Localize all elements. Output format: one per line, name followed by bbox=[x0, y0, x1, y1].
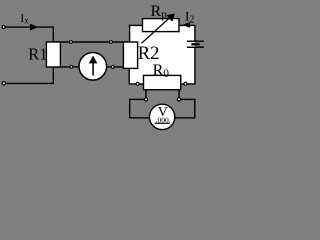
wire: R2 bottom lead down bbox=[128, 68, 130, 84]
wire: Ix horizontal wire bbox=[5, 26, 54, 28]
current source circle bbox=[79, 53, 107, 81]
wire: Rp branch right segment to battery bbox=[179, 24, 196, 26]
wire: voltmeter left horizontal bbox=[129, 117, 151, 119]
wire: Rp branch left segment bbox=[129, 24, 144, 26]
junction circle left bbox=[144, 98, 147, 101]
battery plate long (bottom) bbox=[187, 46, 204, 48]
wire: top rail R1 to R2 bbox=[53, 41, 131, 43]
junction circle right bbox=[177, 98, 180, 101]
wire: lower rail left segment bbox=[129, 98, 145, 100]
battery plate long (top) bbox=[187, 40, 204, 42]
wire: battery top lead bbox=[194, 25, 196, 40]
node circle on bottom rail (left) bbox=[70, 65, 73, 68]
wire: R1 bottom lead down bbox=[52, 67, 54, 84]
battery plate short thick (middle) bbox=[191, 43, 199, 45]
arrowhead Ix current direction bbox=[30, 24, 39, 31]
wire: R0 rail bbox=[129, 83, 196, 85]
resistor R1 body bbox=[46, 42, 60, 67]
wire: voltmeter loop right vertical bbox=[194, 99, 196, 119]
resistor R2 body bbox=[123, 42, 137, 68]
wire: bottom rail R1 to R2 bbox=[53, 66, 125, 68]
potentiometer arrow (rheostat diagonal) bbox=[142, 17, 172, 44]
node circle on bottom rail (right) bbox=[111, 66, 114, 69]
wire: right stub from R0 bottom corner bbox=[178, 89, 180, 99]
arrowhead I2 current direction (pointing left) bbox=[183, 22, 191, 28]
wire: R2 top lead up to Rp branch bbox=[129, 25, 131, 42]
node circle on top rail (right) bbox=[110, 41, 113, 44]
white fill of right mesh bbox=[130, 25, 195, 84]
wire: lower rail right segment bbox=[180, 98, 196, 100]
voltmeter underline bbox=[155, 122, 170, 124]
potentiometer Rp body bbox=[143, 19, 180, 32]
node circle on R0 rail (left) bbox=[136, 82, 139, 85]
node circle on R0 rail (right) bbox=[184, 82, 187, 85]
resistor R0 body bbox=[144, 75, 181, 89]
wire: voltmeter right horizontal bbox=[174, 117, 196, 119]
terminal top-left bbox=[2, 26, 5, 29]
wire: battery bottom lead down to R0 rail bbox=[194, 48, 196, 84]
wire: bottom-left horizontal to terminal bbox=[4, 82, 54, 84]
voltmeter V body bbox=[149, 104, 174, 129]
svg-text:R1: R1 bbox=[28, 45, 47, 64]
wire: left stub from R0 bottom corner bbox=[145, 89, 147, 99]
node circle on top rail (left) bbox=[70, 41, 73, 44]
wire: voltmeter loop left vertical bbox=[129, 99, 131, 119]
wire: vertical from Ix corner down to R1 top bbox=[52, 26, 54, 42]
current source arrow bbox=[92, 61, 94, 76]
terminal bottom-left bbox=[2, 82, 5, 85]
